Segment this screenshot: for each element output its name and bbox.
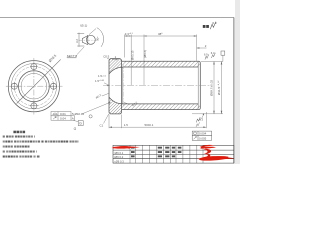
leader from hole callout to flange <box>83 102 110 113</box>
svg-text:I(5:1): I(5:1) <box>80 23 87 27</box>
svg-text:6.3: 6.3 <box>212 21 217 25</box>
svg-text:Ø58.7±0.02: Ø58.7±0.02 <box>209 80 213 96</box>
svg-text:G: G <box>74 127 77 131</box>
small balloon mark <box>89 115 92 118</box>
tech requirements line 5 <box>3 156 5 158</box>
tube top wall hatched <box>122 61 201 67</box>
tube outline <box>122 61 201 109</box>
gray margin strip right of sheet <box>235 0 240 164</box>
sphere tangent line <box>122 67 124 104</box>
flange outline <box>109 59 122 114</box>
leader to face grooves <box>104 83 109 85</box>
tech requirements line 2 <box>3 141 5 143</box>
sheet top border line <box>0 17 234 19</box>
svg-text:0.04: 0.04 <box>60 116 66 120</box>
horizontal centerline <box>6 85 63 87</box>
bore white <box>122 67 198 104</box>
tech requirements line 4 <box>3 151 5 153</box>
small box marker right <box>221 51 225 55</box>
bolt hole right <box>50 82 58 90</box>
svg-text:C1: C1 <box>100 123 104 127</box>
bore opening circle <box>21 73 47 99</box>
bore lines <box>123 66 199 68</box>
dim 2 at right top <box>197 47 207 49</box>
svg-text:0.01: 0.01 <box>60 112 66 116</box>
tech requirements line 1 <box>3 136 5 138</box>
spherical bore arc bottom <box>109 97 123 104</box>
surface note top right: 其余 6.3 <box>203 25 209 28</box>
svg-text:SECT B: SECT B <box>67 54 78 58</box>
svg-text:3.2: 3.2 <box>75 39 79 43</box>
detail blob outline <box>82 35 95 45</box>
svg-text:5-Ø10.05: 5-Ø10.05 <box>72 112 84 116</box>
red streak over left of title block <box>113 146 140 148</box>
svg-text:6.9: 6.9 <box>204 53 208 57</box>
surface symbol at 50 dim <box>196 122 200 127</box>
sheet background <box>0 0 240 180</box>
svg-text:×Ø6 0.2: ×Ø6 0.2 <box>114 155 124 159</box>
sheet right border line <box>233 18 235 164</box>
svg-text:0.005: 0.005 <box>199 136 207 140</box>
top dim line 3.3 / 38 <box>125 35 197 86</box>
leader from label to detail <box>77 47 84 55</box>
bolt circle (centerline) <box>14 67 53 106</box>
tech requirements title <box>13 131 16 134</box>
svg-text:50±0.1: 50±0.1 <box>145 123 154 127</box>
flange block hatched <box>109 59 122 114</box>
surface symbol bottom right with leader <box>196 117 200 122</box>
svg-text:6.3: 6.3 <box>211 51 215 55</box>
spherical bore end (white, clipped at flange face) <box>109 67 123 104</box>
svg-text:A: A <box>72 116 74 120</box>
svg-text:△Ø6 0.3: △Ø6 0.3 <box>114 159 125 163</box>
surface symbols near tube right top <box>205 54 209 59</box>
top dim arrowheads <box>125 35 128 36</box>
red signature over right of title block <box>199 145 234 161</box>
bolt hole top <box>30 63 38 71</box>
outer chamfer circle <box>11 63 56 108</box>
svg-text:(Ø6.6): (Ø6.6) <box>143 50 147 58</box>
svg-text:1.5: 1.5 <box>124 123 128 127</box>
sphere vertical centerline <box>122 64 124 107</box>
outer circle of flange <box>8 61 59 112</box>
section centerline <box>103 85 211 87</box>
tech requirements line 3 <box>3 146 5 148</box>
title block tiny texts <box>131 147 181 158</box>
detail centerline <box>79 39 97 41</box>
detail left dimension <box>77 33 84 47</box>
detail leader to angle <box>89 29 96 35</box>
svg-text:C0.5: C0.5 <box>103 55 109 59</box>
bore circle <box>19 71 50 102</box>
datum G box <box>78 121 83 126</box>
frame row 2: runout 0.04 A <box>51 116 75 120</box>
right dims extension lines <box>122 59 223 114</box>
tube bottom wall hatched <box>122 104 201 110</box>
bottom dim 50±0.1 <box>109 112 206 128</box>
vertical centerline <box>33 58 35 115</box>
svg-text:0.004: 0.004 <box>199 132 207 136</box>
bolt hole left <box>11 82 19 90</box>
detail angle arc <box>97 28 104 47</box>
svg-text:>Ø6 0.1: >Ø6 0.1 <box>114 151 124 155</box>
frame row 1: profile 0.01 <box>51 112 71 116</box>
spherical bore arc top <box>109 67 123 74</box>
bolt hole bottom <box>30 102 38 110</box>
datum G leader <box>73 120 79 122</box>
diagonal diameter line <box>17 59 61 103</box>
svg-text:Ø11.5⁻⁰․⁰⁷: Ø11.5⁻⁰․⁰⁷ <box>217 81 221 95</box>
